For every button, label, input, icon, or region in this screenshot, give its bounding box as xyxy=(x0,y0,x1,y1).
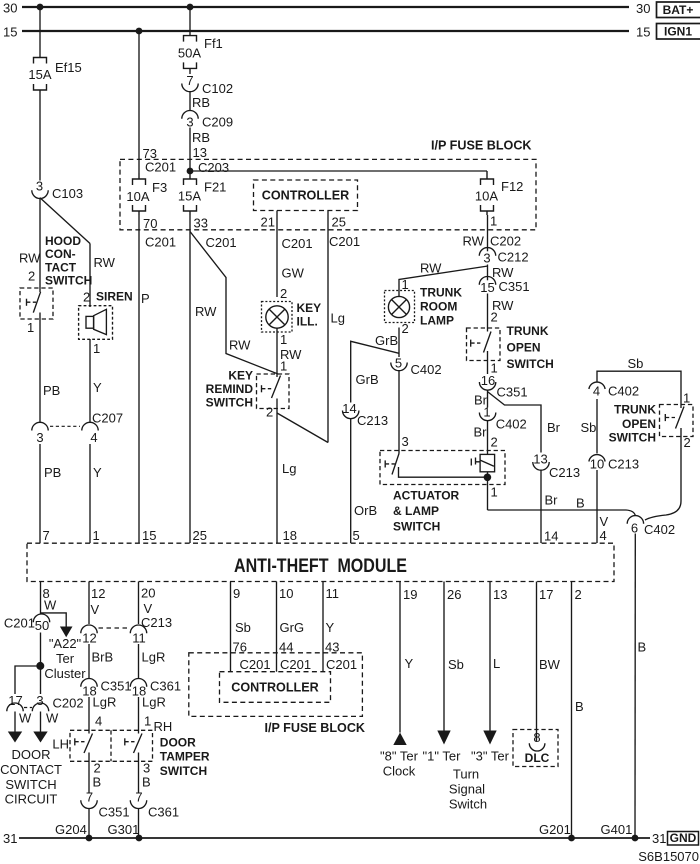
svg-text:Y: Y xyxy=(93,380,102,395)
node door contact arrow left xyxy=(8,732,22,743)
svg-text:1: 1 xyxy=(483,405,490,420)
wire module pin17 to DLC xyxy=(536,582,538,742)
svg-text:C351: C351 xyxy=(497,385,528,400)
wire F3 to module pin15 xyxy=(138,215,140,543)
svg-text:15A: 15A xyxy=(28,67,51,82)
svg-text:4: 4 xyxy=(593,384,600,399)
svg-text:3: 3 xyxy=(483,251,490,266)
svg-text:13: 13 xyxy=(493,587,507,602)
svg-text:CON-: CON- xyxy=(45,247,76,261)
svg-text:C202: C202 xyxy=(490,234,521,249)
node turn signal switch label xyxy=(449,767,487,812)
wire F21 to module pin25 xyxy=(189,215,191,543)
node A22 arrow xyxy=(60,627,73,638)
connector C351 pin 18 xyxy=(81,679,132,699)
node door tamper switch name xyxy=(160,735,210,777)
wire C361-7 to G301 xyxy=(138,808,140,838)
svg-text:SIREN: SIREN xyxy=(96,290,133,304)
svg-text:TRUNK: TRUNK xyxy=(507,324,549,338)
wire C209 to F21 xyxy=(189,128,191,176)
svg-text:"1" Ter: "1" Ter xyxy=(423,749,462,764)
svg-text:3: 3 xyxy=(36,430,43,445)
actuator lamp switch box xyxy=(380,451,505,485)
svg-text:25: 25 xyxy=(193,528,207,543)
svg-text:C213: C213 xyxy=(141,615,172,630)
svg-text:RB: RB xyxy=(192,130,210,145)
svg-text:GND: GND xyxy=(670,831,697,845)
svg-text:RW: RW xyxy=(420,261,442,276)
wire module pin2 to G201 xyxy=(571,582,573,839)
svg-text:1: 1 xyxy=(280,359,287,374)
svg-text:C402: C402 xyxy=(411,362,442,377)
svg-text:SWITCH: SWITCH xyxy=(5,777,56,792)
svg-text:1: 1 xyxy=(27,320,34,335)
svg-text:IGN1: IGN1 xyxy=(664,25,692,39)
node trunk open switch name (center) xyxy=(507,324,554,371)
svg-text:Y: Y xyxy=(93,465,102,480)
node junction bus15/F3 xyxy=(136,28,143,35)
svg-text:4: 4 xyxy=(90,430,97,445)
svg-text:Switch: Switch xyxy=(449,797,487,812)
svg-text:SWITCH: SWITCH xyxy=(45,274,92,288)
wire C213-11 to C361-18 xyxy=(138,644,140,678)
svg-text:RH: RH xyxy=(154,719,173,734)
node BAT+ box xyxy=(657,2,700,18)
svg-text:Ff1: Ff1 xyxy=(204,36,223,51)
node door contact arrow right xyxy=(33,732,47,743)
fuse Ff1 symbol xyxy=(184,36,197,72)
svg-text:7: 7 xyxy=(86,790,93,805)
node junction C203 xyxy=(187,168,194,175)
svg-text:S6B15070: S6B15070 xyxy=(638,849,699,864)
lamp KEY ILL box xyxy=(262,302,293,333)
svg-text:TRUNK: TRUNK xyxy=(420,286,462,300)
svg-text:C213: C213 xyxy=(549,465,580,480)
switch trunk open blade (center) xyxy=(471,332,491,353)
wire C213-13 to module pin14 xyxy=(540,470,542,543)
svg-text:I/P FUSE BLOCK: I/P FUSE BLOCK xyxy=(431,139,532,153)
svg-text:2: 2 xyxy=(575,587,582,602)
wire C103 diagonal to siren xyxy=(40,198,90,244)
svg-text:ILL.: ILL. xyxy=(297,315,318,329)
svg-text:G401: G401 xyxy=(601,822,633,837)
wire key remind switch to module pin18 xyxy=(276,399,278,544)
svg-text:B: B xyxy=(638,640,647,655)
svg-text:SWITCH: SWITCH xyxy=(393,520,440,534)
svg-text:C402: C402 xyxy=(608,384,639,399)
svg-text:F12: F12 xyxy=(501,179,523,194)
connector C351 pin 7 xyxy=(81,790,130,820)
svg-text:L: L xyxy=(493,656,500,671)
node turn signal arrow (down) xyxy=(437,731,450,745)
svg-text:G204: G204 xyxy=(55,822,87,837)
svg-text:LgR: LgR xyxy=(93,695,117,710)
wire trunk open switch right to C402-6 xyxy=(645,429,681,520)
svg-text:6: 6 xyxy=(631,521,638,536)
svg-text:3: 3 xyxy=(36,178,43,193)
node junction G204 xyxy=(86,835,93,842)
connector C103 xyxy=(32,178,83,201)
switch hood contact blade xyxy=(27,292,41,313)
connector DLC pin 8 xyxy=(529,730,545,751)
wire module pin11 to controller xyxy=(322,582,324,672)
wire bus30 to Ef15 xyxy=(39,7,41,58)
node A22 ter cluster label xyxy=(44,636,86,681)
switch door tamper LH blade xyxy=(75,734,93,754)
svg-text:DLC: DLC xyxy=(525,751,550,765)
svg-text:BrB: BrB xyxy=(92,650,114,665)
svg-text:30: 30 xyxy=(636,1,650,16)
connector C213 pin 14 xyxy=(342,401,388,428)
svg-text:C201: C201 xyxy=(240,657,271,672)
svg-text:25: 25 xyxy=(332,215,346,230)
svg-text:TAMPER: TAMPER xyxy=(160,749,210,763)
wire C402-1 to relay xyxy=(487,421,489,455)
svg-text:2: 2 xyxy=(684,435,691,450)
svg-text:Br: Br xyxy=(545,493,559,508)
fuse F12 symbol xyxy=(481,171,494,215)
svg-text:21: 21 xyxy=(261,215,275,230)
svg-text:BW: BW xyxy=(539,657,561,672)
speaker siren symbol xyxy=(86,309,106,334)
svg-text:REMIND: REMIND xyxy=(206,382,254,396)
node junction actuator/lamp-switch output xyxy=(484,474,492,482)
svg-text:Sb: Sb xyxy=(628,356,644,371)
svg-text:Sb: Sb xyxy=(581,420,597,435)
svg-text:SWITCH: SWITCH xyxy=(160,764,207,778)
wire C402-5 to actuator switch xyxy=(398,371,400,454)
wire module pin13 to 3-ter arrow xyxy=(489,582,491,731)
svg-text:Y: Y xyxy=(326,620,335,635)
connector C102 xyxy=(182,73,233,96)
node actuator switch name xyxy=(393,489,460,534)
svg-text:C201: C201 xyxy=(145,160,176,175)
svg-text:RW: RW xyxy=(463,234,485,249)
node hood switch name xyxy=(45,234,92,288)
svg-text:Lg: Lg xyxy=(282,461,296,476)
wire key remind to Lg diagonal xyxy=(277,413,328,443)
box I/P fuse block lower xyxy=(189,653,363,717)
svg-text:B: B xyxy=(142,775,151,790)
svg-text:Br: Br xyxy=(474,425,488,440)
svg-text:DOOR: DOOR xyxy=(160,735,196,749)
lamp KEY ILL symbol xyxy=(266,306,288,328)
svg-text:2: 2 xyxy=(83,290,90,305)
connector C212 pin 3 xyxy=(479,248,528,266)
connector C201 pin 50 xyxy=(4,614,50,633)
connector C213 pins 12/11 xyxy=(81,625,147,646)
svg-text:GrB: GrB xyxy=(356,372,379,387)
hood contact switch box xyxy=(20,288,53,319)
wire GrB diagonal to C213 branch xyxy=(351,341,399,402)
svg-text:C351: C351 xyxy=(499,279,530,294)
svg-text:Ter: Ter xyxy=(56,651,75,666)
node trunk room lamp name xyxy=(420,286,462,328)
connector C361 pin 7 xyxy=(130,790,179,820)
svg-text:B: B xyxy=(576,496,585,511)
svg-text:LgR: LgR xyxy=(142,695,166,710)
wire C202-3 to arrow xyxy=(40,712,42,732)
door tamper switch box xyxy=(70,730,153,761)
wire module pin20 to C213-11 xyxy=(138,582,140,625)
svg-text:& LAMP: & LAMP xyxy=(393,504,439,518)
svg-text:W: W xyxy=(19,711,32,726)
connector C402 pin 4 xyxy=(589,382,639,398)
svg-text:3: 3 xyxy=(186,115,193,130)
svg-text:C212: C212 xyxy=(498,250,529,265)
wire C212 to C351-15 xyxy=(487,265,489,281)
svg-text:GrG: GrG xyxy=(280,620,305,635)
wire C103 to hood switch xyxy=(39,198,41,292)
svg-text:KEY: KEY xyxy=(297,301,322,315)
svg-text:"3" Ter: "3" Ter xyxy=(471,749,510,764)
svg-text:C207: C207 xyxy=(92,411,123,426)
svg-text:DOOR: DOOR xyxy=(12,747,51,762)
node clock arrow (up) xyxy=(393,733,406,746)
svg-text:3: 3 xyxy=(36,693,43,708)
wire C213-12 to C351-18 xyxy=(88,644,90,678)
wire trunk open switch to C351-16 xyxy=(487,351,489,374)
wire C351-16 to C402-1 xyxy=(487,390,489,407)
wire C203 feed to F12 xyxy=(190,170,487,172)
switch trunk open blade (right) xyxy=(665,405,684,430)
svg-text:SWITCH: SWITCH xyxy=(507,357,554,371)
wire bus30 to Ff1 xyxy=(189,7,191,36)
svg-text:RW: RW xyxy=(492,265,514,280)
wire siren feed xyxy=(89,244,91,308)
svg-text:C402: C402 xyxy=(496,417,527,432)
svg-text:11: 11 xyxy=(132,631,146,646)
svg-text:G201: G201 xyxy=(539,822,571,837)
svg-text:70: 70 xyxy=(143,216,157,231)
svg-text:1: 1 xyxy=(280,332,287,347)
box controller (upper) xyxy=(254,180,358,211)
svg-text:RB: RB xyxy=(192,95,210,110)
svg-text:1: 1 xyxy=(144,714,151,729)
node junction G401 xyxy=(632,835,639,842)
svg-text:F21: F21 xyxy=(204,180,226,195)
svg-text:ANTI-THEFT MODULE: ANTI-THEFT MODULE xyxy=(234,555,407,577)
svg-text:C202: C202 xyxy=(53,696,84,711)
wire C402-6 to G401 xyxy=(634,534,636,839)
wire module pin9 to controller xyxy=(230,582,232,672)
wire C351-7 to G204 xyxy=(88,808,90,838)
svg-text:TRUNK: TRUNK xyxy=(614,402,656,416)
trunk open switch box (right) xyxy=(660,405,694,437)
svg-text:RW: RW xyxy=(229,338,251,353)
svg-text:11: 11 xyxy=(326,586,340,601)
svg-text:4: 4 xyxy=(95,714,102,729)
svg-text:Turn: Turn xyxy=(453,767,479,782)
svg-text:13: 13 xyxy=(193,145,207,160)
svg-text:GW: GW xyxy=(282,266,305,281)
svg-text:ROOM: ROOM xyxy=(420,300,457,314)
wire F12 to C212 xyxy=(487,215,489,251)
svg-text:B: B xyxy=(575,699,584,714)
key remind switch box xyxy=(257,374,290,409)
wire C213-14 to module pin5 xyxy=(350,419,352,543)
svg-text:W: W xyxy=(44,598,57,613)
fuse F21 symbol xyxy=(184,175,197,215)
svg-text:33: 33 xyxy=(194,216,208,231)
svg-text:C402: C402 xyxy=(644,522,675,537)
wire Ff1 to C102 xyxy=(189,72,191,74)
svg-text:26: 26 xyxy=(447,587,461,602)
svg-text:C351: C351 xyxy=(101,679,132,694)
svg-text:15: 15 xyxy=(480,280,494,295)
wire C201-50 to C202-3 xyxy=(40,633,42,695)
box I/P fuse block upper xyxy=(120,159,536,229)
svg-text:C209: C209 xyxy=(202,115,233,130)
node IGN1 box xyxy=(657,24,700,40)
fuse Ef15 symbol xyxy=(34,58,47,93)
svg-text:KEY: KEY xyxy=(228,369,253,383)
svg-text:7: 7 xyxy=(135,790,142,805)
svg-text:2: 2 xyxy=(402,321,409,336)
wire C207 pin3 to module pin7 xyxy=(39,444,41,543)
svg-text:1: 1 xyxy=(683,391,690,406)
svg-text:C201: C201 xyxy=(280,657,311,672)
svg-text:CONTACT: CONTACT xyxy=(0,762,62,777)
svg-text:12: 12 xyxy=(82,631,96,646)
wire hood switch to C207 xyxy=(39,313,41,423)
wire F21 diagonal to key remind xyxy=(190,232,278,375)
svg-text:CONTROLLER: CONTROLLER xyxy=(262,189,349,203)
wire module pin19 to clock arrow xyxy=(399,582,401,733)
svg-text:Lg: Lg xyxy=(331,311,345,326)
node junction bus30/Ef15 xyxy=(37,4,44,11)
svg-text:20: 20 xyxy=(141,586,155,601)
svg-text:9: 9 xyxy=(233,586,240,601)
svg-text:10: 10 xyxy=(590,457,604,472)
connector C402 pin 6 xyxy=(627,516,675,537)
svg-text:C201: C201 xyxy=(206,235,237,250)
wire C351-15 to trunk open switch xyxy=(487,294,489,332)
trunk open switch box (center) xyxy=(467,328,501,361)
svg-text:LH: LH xyxy=(52,737,69,752)
svg-text:30: 30 xyxy=(3,1,17,16)
connector C213 pin 10 xyxy=(589,455,639,472)
node junction A22 branch xyxy=(36,662,44,670)
svg-text:HOOD: HOOD xyxy=(45,234,81,248)
svg-text:15A: 15A xyxy=(178,189,201,204)
svg-text:18: 18 xyxy=(283,528,297,543)
wire tamper RH to C361-7 xyxy=(138,753,140,794)
wire A22 branch xyxy=(41,613,67,627)
svg-text:C201: C201 xyxy=(4,616,35,631)
switch key remind blade xyxy=(262,376,281,399)
connector C209 xyxy=(182,111,233,130)
wire bus15 to F3 xyxy=(138,31,140,173)
svg-text:"8" Ter: "8" Ter xyxy=(380,749,419,764)
svg-text:BAT+: BAT+ xyxy=(663,3,694,17)
svg-text:2: 2 xyxy=(266,405,273,420)
svg-text:15: 15 xyxy=(636,25,650,40)
svg-text:2: 2 xyxy=(491,310,498,325)
svg-text:OrB: OrB xyxy=(354,503,377,518)
svg-text:I/P FUSE BLOCK: I/P FUSE BLOCK xyxy=(265,721,366,735)
svg-text:17: 17 xyxy=(539,587,553,602)
svg-text:1: 1 xyxy=(491,485,498,500)
svg-text:PB: PB xyxy=(43,383,60,398)
wire module pin10 to controller xyxy=(276,582,278,672)
svg-text:C213: C213 xyxy=(357,413,388,428)
wire module pin8 down xyxy=(40,582,42,615)
wire module pin12 to C213-12 xyxy=(88,582,90,625)
node key remind switch name xyxy=(206,369,254,410)
svg-text:31: 31 xyxy=(652,831,666,846)
svg-text:OPEN: OPEN xyxy=(622,417,656,431)
connector C351 pin 16 xyxy=(479,373,527,400)
svg-text:50: 50 xyxy=(35,618,49,633)
svg-text:W: W xyxy=(46,711,59,726)
wire Sb top horizontal xyxy=(597,371,681,404)
wire Br diagonal to C213-13 xyxy=(488,392,542,453)
svg-text:RW: RW xyxy=(19,251,41,266)
svg-text:LAMP: LAMP xyxy=(420,314,454,328)
svg-text:ACTUATOR: ACTUATOR xyxy=(393,489,460,503)
svg-text:10A: 10A xyxy=(126,189,149,204)
svg-text:2: 2 xyxy=(491,435,498,450)
svg-text:2: 2 xyxy=(94,761,101,776)
svg-text:SWITCH: SWITCH xyxy=(609,431,656,445)
node junction bus30/Ff1 xyxy=(187,4,194,11)
svg-text:14: 14 xyxy=(544,529,558,544)
svg-text:2: 2 xyxy=(28,269,35,284)
wire bus 15 xyxy=(22,30,629,32)
svg-text:C102: C102 xyxy=(202,81,233,96)
svg-text:C351: C351 xyxy=(99,805,130,820)
svg-text:V: V xyxy=(144,601,153,616)
svg-text:Sb: Sb xyxy=(448,657,464,672)
svg-text:Y: Y xyxy=(405,656,414,671)
svg-text:CONTROLLER: CONTROLLER xyxy=(231,681,318,695)
connector C402 pin 1 xyxy=(479,405,526,432)
node GND box xyxy=(668,831,699,845)
wire bus 30 xyxy=(22,6,629,8)
svg-text:G301: G301 xyxy=(108,822,140,837)
switch actuator blade xyxy=(385,454,487,478)
svg-text:"A22": "A22" xyxy=(49,636,82,651)
svg-text:LgR: LgR xyxy=(142,650,166,665)
svg-text:SWITCH: SWITCH xyxy=(206,396,253,410)
svg-text:16: 16 xyxy=(481,373,495,388)
node KEY ILL name xyxy=(297,301,322,329)
svg-text:7: 7 xyxy=(186,73,193,88)
svg-text:15: 15 xyxy=(142,528,156,543)
wire Ef15 to C103 xyxy=(39,93,41,181)
connector C351 pin 15 xyxy=(479,277,529,296)
svg-text:RW: RW xyxy=(94,255,116,270)
svg-text:CIRCUIT: CIRCUIT xyxy=(5,792,58,807)
wire controller 25 to Lg junction xyxy=(327,211,329,443)
svg-text:TACT: TACT xyxy=(45,261,77,275)
svg-text:13: 13 xyxy=(533,452,547,467)
svg-text:C213: C213 xyxy=(608,457,639,472)
svg-text:C361: C361 xyxy=(150,679,181,694)
svg-text:RW: RW xyxy=(195,304,217,319)
switch door tamper RH blade xyxy=(125,734,142,754)
svg-text:5: 5 xyxy=(353,528,360,543)
svg-text:1: 1 xyxy=(402,277,409,292)
svg-text:14: 14 xyxy=(342,401,356,416)
node 8 ter clock label xyxy=(380,749,419,779)
svg-text:B: B xyxy=(93,775,102,790)
svg-text:4: 4 xyxy=(600,528,607,543)
svg-text:C361: C361 xyxy=(148,805,179,820)
node junction G301 xyxy=(136,835,143,842)
wire B horizontal to C402-6 xyxy=(488,510,636,516)
